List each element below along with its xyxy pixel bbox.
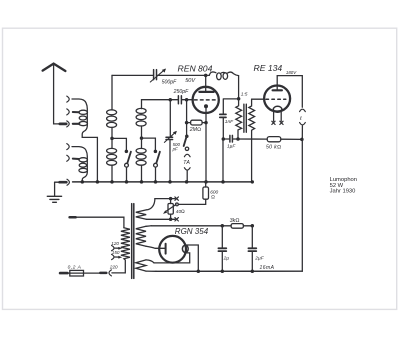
wire 1nF to mid rail: [222, 118, 224, 182]
svg-text:50 kΩ: 50 kΩ: [266, 145, 281, 151]
power transformer primary with taps: [112, 228, 130, 273]
svg-text:Jahr 1930: Jahr 1930: [330, 189, 356, 195]
rectifier winding S3: [136, 260, 156, 271]
mains lead 1 plug: [70, 217, 124, 228]
power transformer core: [132, 204, 134, 279]
wire HT rail: [151, 225, 252, 227]
potentiometer 40 ohm: [163, 197, 178, 221]
heater winding S1 4V: [136, 199, 155, 220]
filament x marks heater rails: [175, 197, 179, 221]
svg-text:120: 120: [111, 241, 119, 246]
wire 1nF branch: [223, 99, 238, 114]
svg-text:RE 134: RE 134: [254, 63, 283, 73]
tap socket 150: [112, 254, 123, 259]
coil L2 with taps: [67, 144, 88, 182]
transformer T1 secondary: [249, 99, 264, 182]
transformer T1 1to5 primary: [236, 99, 242, 139]
ground: [47, 182, 61, 202]
filament x marks RE134: [272, 121, 283, 124]
node cathode-2M junction: [204, 121, 208, 125]
wire right vertical: [301, 139, 303, 271]
coil L1 antenna coil with taps: [67, 96, 98, 182]
label 600 ohm: [210, 189, 218, 200]
tap socket 120: [112, 246, 123, 251]
svg-text:1:5: 1:5: [241, 91, 248, 97]
node coil L3 tap junction: [110, 137, 114, 141]
svg-text:40Ω: 40Ω: [176, 209, 185, 215]
capacitor 250pF: [178, 96, 181, 104]
wire rectifier filament return: [154, 253, 190, 263]
node transformer primary top: [237, 97, 241, 101]
mains lead 2 plug: [100, 270, 111, 276]
node HT junction 2u: [221, 224, 225, 228]
label 500 pF: [172, 142, 181, 151]
choke coupling coil: [206, 72, 239, 99]
svg-text:250pF: 250pF: [173, 89, 190, 95]
tube RE 134: [264, 76, 290, 122]
svg-text:150: 150: [112, 250, 120, 255]
svg-text:180V: 180V: [286, 70, 297, 75]
fuse 0,2A: [60, 270, 100, 276]
wire 180V anode rail: [277, 76, 302, 108]
capacitor 1uF: [230, 135, 233, 142]
capacitor 1nF: [220, 114, 226, 117]
capacitor 2u: [218, 226, 226, 271]
svg-text:500pF: 500pF: [162, 79, 178, 85]
node anode junction: [204, 74, 208, 78]
transformer T1 core: [244, 104, 246, 132]
resistor 2M ohm: [185, 120, 206, 125]
svg-text:3kΩ: 3kΩ: [230, 218, 240, 224]
HV winding S2: [136, 226, 166, 249]
wire rectifier cathode out: [186, 245, 198, 271]
svg-text:1µF: 1µF: [227, 144, 236, 150]
antenna plug terminal: [60, 121, 80, 127]
svg-text:50V: 50V: [185, 78, 196, 84]
svg-text:16mA: 16mA: [260, 265, 275, 271]
svg-text:2µ: 2µ: [223, 255, 230, 261]
node grid leak junction: [185, 98, 189, 102]
coil L4 tuning coil B upper: [136, 100, 146, 138]
node coil L4 tap junction: [140, 136, 144, 140]
terminal L loudspeaker jacks: [300, 109, 306, 139]
variable capacitor C4 500pF: [164, 131, 177, 143]
node grid junction A: [169, 98, 173, 102]
svg-text:TA: TA: [183, 160, 190, 166]
variable capacitor C1 500pF: [150, 69, 166, 82]
svg-text:REN 804: REN 804: [178, 64, 213, 74]
svg-text:0,2 A: 0,2 A: [68, 264, 82, 270]
svg-text:Ω: Ω: [211, 194, 215, 200]
text Lumophon block: [330, 177, 357, 194]
svg-text:RGN 354: RGN 354: [175, 227, 209, 236]
node bus right end: [251, 180, 254, 183]
svg-text:600: 600: [210, 189, 218, 195]
svg-text:ℓ: ℓ: [299, 116, 302, 122]
tube REN 804: [193, 75, 219, 181]
svg-text:2MΩ: 2MΩ: [189, 127, 201, 133]
wire mid rail: [223, 138, 302, 140]
junction dots on bus: [81, 180, 225, 184]
wire chassis bus: [73, 181, 253, 183]
wire heater rail bottom: [146, 218, 175, 220]
resistor 3k: [231, 224, 243, 229]
coil L3 lower: [107, 138, 117, 182]
coil L4 lower: [136, 138, 146, 182]
chassis bus plug terminal: [55, 179, 70, 185]
wire TA branch: [186, 100, 188, 136]
wire bottom rail: [156, 270, 302, 272]
wire tuning cap branch: [169, 100, 171, 182]
capacitor 2uF: [248, 226, 256, 271]
svg-text:220: 220: [109, 264, 118, 269]
switch S1: [112, 138, 131, 182]
resistor 50k: [267, 137, 281, 142]
switch S3 TA: [184, 134, 189, 150]
resistor 600 ohm: [178, 182, 208, 205]
svg-text:1nF: 1nF: [225, 119, 234, 125]
coil L3 tuning coil A upper: [107, 75, 117, 138]
svg-text:pF: pF: [172, 147, 178, 152]
node speaker junction: [300, 138, 304, 142]
node primary bottom junction: [236, 137, 240, 141]
wire top rail: [112, 74, 206, 76]
antenna: [43, 64, 66, 124]
node HT junction 3k right: [251, 224, 255, 228]
svg-text:2µF: 2µF: [254, 255, 264, 261]
wire heater rail top: [155, 198, 175, 200]
terminal TA jacks: [184, 154, 190, 182]
wire grid line: [142, 99, 193, 101]
node mid rail junction: [222, 137, 226, 141]
tube RGN 354: [159, 236, 188, 263]
junction dots bottom rail: [197, 269, 255, 273]
switch S2: [142, 138, 160, 182]
